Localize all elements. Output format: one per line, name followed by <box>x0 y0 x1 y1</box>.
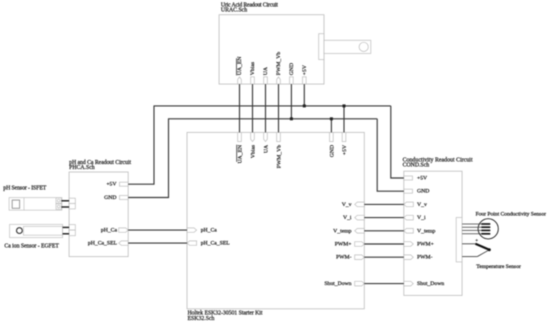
port V_v (COND left, output arrow) <box>404 202 427 208</box>
svg-text:ESK32.Sch: ESK32.Sch <box>188 316 215 322</box>
svg-text:+5V: +5V <box>106 182 117 188</box>
wire EGFET pin 2 <box>63 233 70 235</box>
port Vbias (URAC bottom) <box>250 61 256 84</box>
svg-text:GND: GND <box>417 189 429 195</box>
svg-text:Temperature Sensor: Temperature Sensor <box>476 264 521 270</box>
svg-text:URAC.Sch: URAC.Sch <box>221 8 247 14</box>
svg-text:pH_Ca: pH_Ca <box>201 228 218 234</box>
wire sensor lead 4 <box>462 233 481 235</box>
wire pH_Ca_SEL (PHCA to ESK32) <box>128 242 187 244</box>
port V_temp (ESK32 right, input arrow) <box>333 228 364 234</box>
svg-text:+5V: +5V <box>417 176 428 182</box>
svg-text:GND: GND <box>289 63 295 75</box>
wire V_temp (ESK32 to COND) <box>364 230 404 232</box>
port GND (ESK32 top) <box>329 132 335 157</box>
port entry (COND right edge, sensor connector) <box>456 218 462 262</box>
wire sensor lead 3 <box>462 229 481 231</box>
svg-text:UA_EN: UA_EN <box>237 57 243 76</box>
wire pH_Ca (PHCA to ESK32) <box>128 229 187 231</box>
wire UA (URAC to ESK32) <box>265 84 267 132</box>
svg-text:V_v: V_v <box>417 202 427 208</box>
svg-text:PHCA.Sch: PHCA.Sch <box>69 165 95 171</box>
svg-text:pH_Ca_SEL: pH_Ca_SEL <box>201 241 231 247</box>
svg-text:UA_EN: UA_EN <box>237 145 243 164</box>
wire ISFET pin 1 <box>61 200 69 202</box>
wire EGFET pin 1 <box>63 226 70 228</box>
svg-text:UA: UA <box>263 66 269 75</box>
port +5V (ESK32 top) <box>342 132 348 155</box>
svg-text:Shut_Down: Shut_Down <box>324 281 351 287</box>
port GND (URAC bottom) <box>289 63 295 84</box>
port UA (URAC bottom) <box>263 66 269 84</box>
junction URAC +5V / +5V rail <box>303 104 306 107</box>
port +5V (COND left) <box>404 176 428 182</box>
svg-text:V_temp: V_temp <box>417 228 435 234</box>
port PWM_Vb (ESK32 top) <box>276 132 282 168</box>
wire +5V riser (+5V rail to ESK32) <box>343 106 345 132</box>
port V_i (ESK32 right, input arrow) <box>343 215 364 221</box>
svg-text:V_i: V_i <box>417 215 426 221</box>
svg-text:PWM_Vb: PWM_Vb <box>276 145 282 169</box>
temperature sensor (thermocouple) symbol <box>462 239 491 256</box>
junction ESK32 GND / GND rail <box>330 117 333 120</box>
svg-text:COND.Sch: COND.Sch <box>403 162 430 168</box>
wire UA_EN (URAC to ESK32) <box>239 84 241 132</box>
port Vbias (ESK32 top) <box>250 132 256 158</box>
port pH_Ca_SEL (PHCA right, input arrow) <box>88 241 128 247</box>
svg-text:Ca ion Sensor - EGFET: Ca ion Sensor - EGFET <box>4 244 59 250</box>
wire +5V rail <box>154 105 391 107</box>
port pair (PHCA left, ISFET pins) <box>69 198 75 209</box>
svg-text:PWM-: PWM- <box>417 255 433 261</box>
svg-text:V_temp: V_temp <box>333 228 351 234</box>
port UA (ESK32 top) <box>263 132 269 153</box>
port +5V (URAC bottom) <box>302 64 308 84</box>
port pair (PHCA left, EGFET pins) <box>69 225 75 236</box>
port Shut_Down (COND left, input arrow) <box>404 281 445 287</box>
wire Shut_Down (ESK32 to COND) <box>364 283 404 285</box>
port V_v (ESK32 right, input arrow) <box>342 202 365 208</box>
junction ESK32 +5V / +5V rail <box>343 104 346 107</box>
wire GND: PHCA to rail riser <box>128 119 168 198</box>
svg-text:pH Sensor - ISFET: pH Sensor - ISFET <box>3 185 46 191</box>
svg-text:V_i: V_i <box>343 215 352 221</box>
junction URAC GND / GND rail <box>290 117 293 120</box>
wire GND rail <box>168 118 377 120</box>
svg-text:PWM-: PWM- <box>336 255 352 261</box>
wire GND: rail to COND <box>377 119 404 191</box>
port PWM+ (COND left, input arrow) <box>404 242 434 248</box>
port pH_Ca_SEL (ESK32 left, output arrow) <box>187 241 230 247</box>
port V_i (COND left, output arrow) <box>404 215 426 221</box>
pH sensor (ISFET) symbol <box>9 198 62 211</box>
sheet symbol U4 COND (Conductivity Readout Circuit) <box>403 157 473 295</box>
port PWM- (COND left, input arrow) <box>404 255 433 261</box>
wire GND riser (GND rail to ESK32) <box>330 119 332 133</box>
port +5V (PHCA right) <box>106 182 128 188</box>
svg-text:PWM+: PWM+ <box>335 242 352 248</box>
four point conductivity sensor symbol <box>478 219 498 239</box>
sheet symbol U2 PHCA (pH and Ca Readout Circuit) <box>69 160 131 256</box>
svg-text:Vbias: Vbias <box>250 61 256 75</box>
wire V_v (ESK32 to COND) <box>364 203 404 205</box>
port pH_Ca (PHCA right, output arrow) <box>101 228 128 234</box>
wire PWM_Vb (URAC to ESK32) <box>278 84 280 132</box>
svg-text:PWM+: PWM+ <box>417 242 434 248</box>
port entry (URAC right edge, connector) <box>319 34 324 60</box>
wire +5V drop (URAC to +5V rail) <box>303 84 305 106</box>
Ca ion sensor (EGFET) symbol <box>10 224 63 237</box>
svg-text:+: + <box>475 239 478 244</box>
svg-text:PWM_Vb: PWM_Vb <box>276 52 282 76</box>
svg-text:pH_Ca: pH_Ca <box>101 228 118 234</box>
sheet symbol U1 URAC (Uric Acid Readout Circuit) <box>219 3 324 85</box>
port PWM_Vb (URAC bottom) <box>276 52 282 84</box>
wire sensor lead 2 <box>462 226 481 228</box>
wire +5V: PHCA to rail riser <box>128 106 154 184</box>
svg-text:Four Point Conductivity Sensor: Four Point Conductivity Sensor <box>476 211 547 217</box>
connector J1 (USB plug on URAC) <box>324 40 371 53</box>
svg-text:Shut_Down: Shut_Down <box>417 281 444 287</box>
wire PWM+ (ESK32 to COND) <box>364 243 404 245</box>
wire V_i (ESK32 to COND) <box>364 217 404 219</box>
port PWM- (ESK32 right, output arrow) <box>336 255 364 261</box>
wire GND drop (URAC to GND rail) <box>290 84 292 119</box>
sheet symbol U3 ESK32 (Holtek ESK32-30501 Starter Kit) <box>187 132 364 322</box>
svg-text:pH_Ca_SEL: pH_Ca_SEL <box>88 241 118 247</box>
wire sensor lead 1 <box>462 223 481 225</box>
port UA_EN (URAC bottom) <box>237 57 244 85</box>
port GND (PHCA right) <box>104 195 128 201</box>
wire +5V: rail to COND <box>391 106 404 178</box>
svg-text:GND: GND <box>329 145 335 157</box>
wire PWM- (ESK32 to COND) <box>364 256 404 258</box>
svg-text:GND: GND <box>104 195 116 201</box>
port V_temp (COND left, output arrow) <box>404 228 436 234</box>
svg-text:+5V: +5V <box>302 64 308 75</box>
port UA_EN (ESK32 top) <box>237 132 244 163</box>
port PWM+ (ESK32 right, output arrow) <box>335 242 365 248</box>
port Shut_Down (ESK32 right, output arrow) <box>324 281 364 287</box>
wire Vbias (URAC to ESK32) <box>252 84 254 132</box>
svg-text:UA: UA <box>263 144 269 153</box>
svg-text:Vbias: Vbias <box>250 144 256 158</box>
port GND (COND left) <box>404 189 430 195</box>
svg-text:+5V: +5V <box>342 144 348 155</box>
port pH_Ca (ESK32 left, input arrow) <box>187 228 217 234</box>
wire ISFET pin 2 <box>61 206 69 208</box>
svg-text:V_v: V_v <box>342 202 352 208</box>
